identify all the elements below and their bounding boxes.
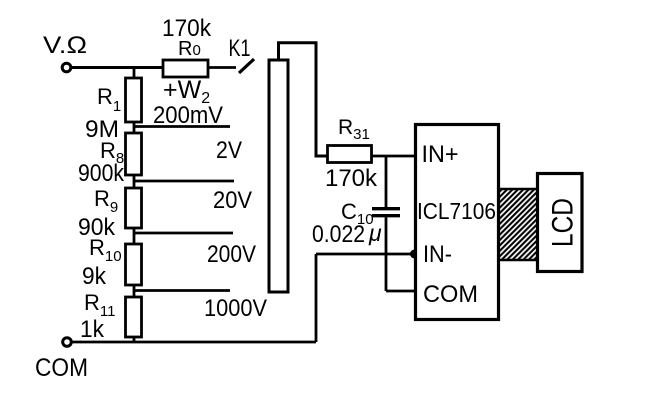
resistor R31 [328,146,372,163]
svg-text:20V: 20V [213,187,252,214]
svg-text:170k: 170k [325,165,378,192]
tap wire 200V [134,289,230,292]
resistor R1 [126,78,142,122]
resistor R11 [126,297,142,337]
svg-text:COM: COM [423,281,478,308]
switch K1 [239,59,254,73]
terminal COM [63,338,72,347]
resistor R10 [126,244,142,285]
svg-text:LCD: LCD [547,198,580,247]
tap wire 20V [134,232,233,235]
wire bottom COM [72,341,317,344]
tap wire 2V [134,180,234,183]
svg-text:R0: R0 [178,38,201,60]
connector hatch [500,188,538,261]
svg-text:900k: 900k [78,160,125,187]
resistor R0 [163,60,208,77]
svg-text:μ: μ [368,220,382,246]
svg-text:0.022: 0.022 [312,221,365,248]
svg-text:IN-: IN- [423,241,452,268]
wire terminal to R0 [72,66,164,69]
svg-text:K1: K1 [229,35,251,62]
IC U1 ICL7106 [416,125,499,320]
svg-text:1000V: 1000V [204,295,267,322]
wire R31 to IN+ [372,155,416,158]
wire chain vertical [133,67,136,342]
junction dot IN- [410,250,419,259]
wire cap to COM pin [386,290,415,293]
svg-text:ICL7106: ICL7106 [417,198,496,224]
display LCD [538,174,583,272]
svg-text:1k: 1k [80,316,105,343]
svg-text:200mV: 200mV [153,102,223,129]
svg-text:IN+: IN+ [422,141,459,168]
wire IN- line [316,253,415,256]
capacitor C10 [385,156,388,207]
svg-text:COM: COM [35,354,88,382]
svg-text:2V: 2V [216,137,242,164]
wire bar top to R31 [279,43,328,156]
svg-text:V.Ω: V.Ω [43,32,87,59]
wire R0 to switch [208,66,236,69]
resistor R8 [126,133,142,175]
tap wire 200mV [134,125,230,128]
wire IN- down [315,254,318,342]
terminal V.Ω [62,63,71,72]
switch bar [269,60,288,292]
svg-text:200V: 200V [207,241,256,268]
svg-text:9k: 9k [82,263,107,290]
resistor R9 [126,188,142,228]
